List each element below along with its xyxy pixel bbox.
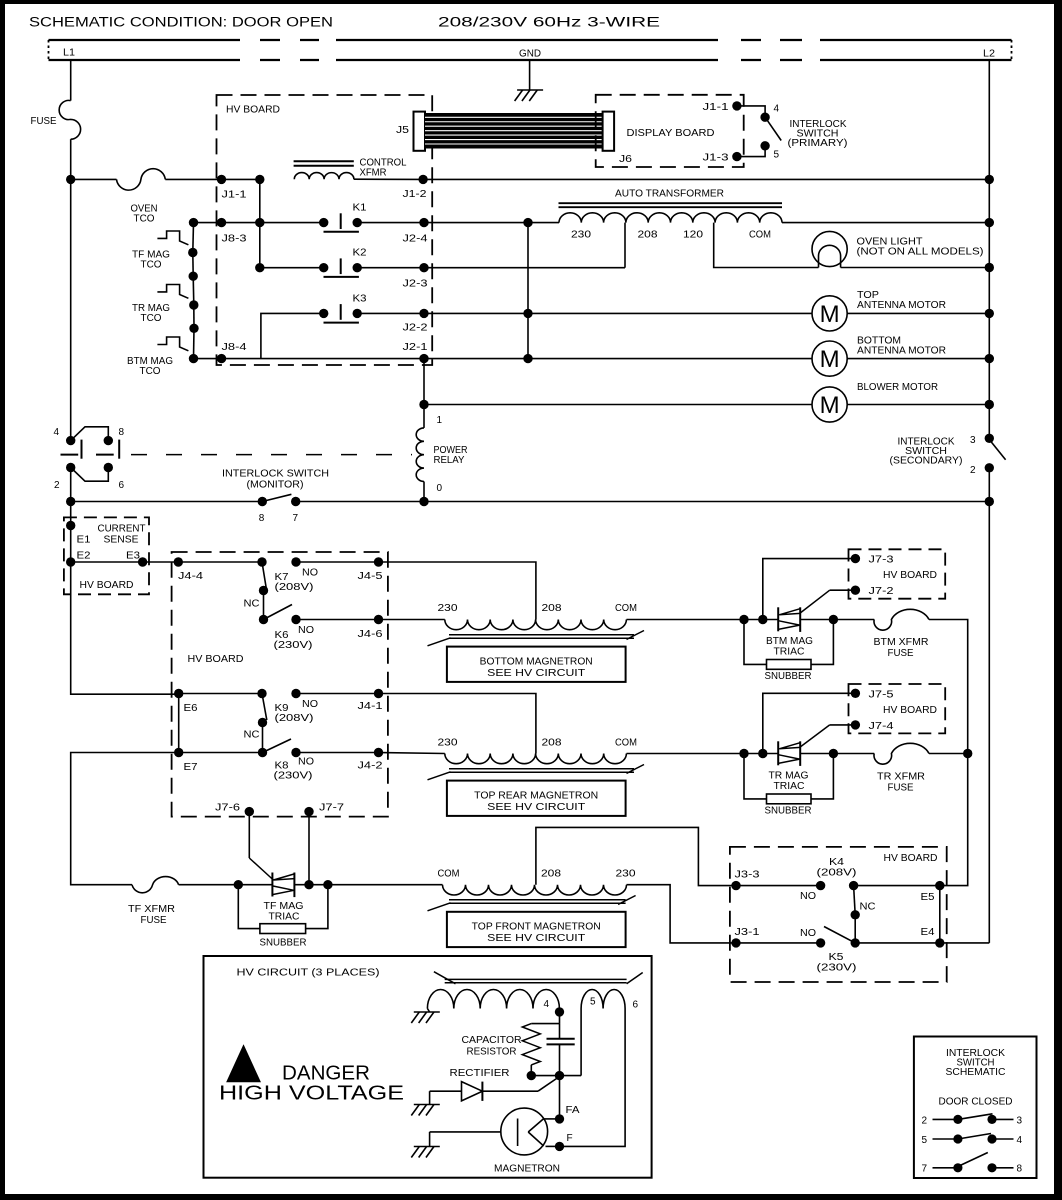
svg-text:208: 208 xyxy=(638,230,659,241)
wire COM end to rail xyxy=(782,222,989,224)
ground magnetron xyxy=(430,1131,501,1133)
fuse BTM XFMR FUSE xyxy=(874,609,929,630)
svg-text:AUTO TRANSFORMER: AUTO TRANSFORMER xyxy=(615,189,724,200)
filament winding pins 5-6 xyxy=(581,990,625,1009)
pin J7-3 xyxy=(851,554,860,563)
svg-text:BTM MAG: BTM MAG xyxy=(766,636,813,647)
svg-text:8: 8 xyxy=(1017,1164,1023,1175)
svg-text:HV BOARD: HV BOARD xyxy=(884,853,938,864)
svg-text:J4-6: J4-6 xyxy=(358,629,384,640)
HV BOARD box (middle) xyxy=(172,552,388,817)
snubber TF xyxy=(238,885,260,929)
pin J7-4 xyxy=(851,720,860,729)
svg-text:K1: K1 xyxy=(353,203,367,214)
pin E3 xyxy=(138,557,147,566)
svg-text:E2: E2 xyxy=(77,551,91,562)
svg-text:208: 208 xyxy=(541,869,562,880)
svg-text:J3-3: J3-3 xyxy=(735,870,761,881)
svg-text:BOTTOM MAGNETRON: BOTTOM MAGNETRON xyxy=(480,657,593,668)
svg-text:J7-2: J7-2 xyxy=(869,586,895,597)
svg-text:MAGNETRON: MAGNETRON xyxy=(494,1164,560,1175)
relay switch K8 (230V) xyxy=(263,739,292,753)
pin J4-6 xyxy=(374,615,383,624)
HV BOARD box J7-3/J7-2 xyxy=(849,549,946,598)
svg-text:DOOR CLOSED: DOOR CLOSED xyxy=(939,1097,1013,1108)
svg-text:2: 2 xyxy=(970,465,976,476)
ground HV primary xyxy=(427,1009,429,1013)
wire TR COM to triac xyxy=(627,753,779,755)
svg-text:CAPACITOR: CAPACITOR xyxy=(462,1035,522,1046)
wire motor feed vertical xyxy=(527,223,529,359)
wire TF 230 end to J3-1 xyxy=(627,885,737,943)
svg-text:J1-1: J1-1 xyxy=(222,190,248,201)
wire TF 208 tap to J3-3 xyxy=(536,827,736,885)
svg-text:NO: NO xyxy=(298,625,314,636)
right rail L2 drop xyxy=(988,60,990,438)
svg-text:FUSE: FUSE xyxy=(31,115,57,127)
svg-text:ANTENNA MOTOR: ANTENNA MOTOR xyxy=(857,346,946,357)
svg-text:L1: L1 xyxy=(63,48,75,59)
pin E1 xyxy=(66,521,75,530)
svg-text:TR XFMR: TR XFMR xyxy=(877,772,925,783)
fuse TR XFMR FUSE xyxy=(874,743,929,764)
svg-text:RESISTOR: RESISTOR xyxy=(467,1047,517,1058)
thermal cutout TR MAG TCO xyxy=(189,272,198,281)
pin J3-1 xyxy=(731,938,740,947)
svg-text:GND: GND xyxy=(519,49,541,60)
pin J1-1 display xyxy=(732,101,741,110)
pin 5 xyxy=(760,141,769,150)
svg-text:J7-6: J7-6 xyxy=(215,803,241,814)
svg-text:XFMR: XFMR xyxy=(360,168,387,179)
wire J1-1 to interlock pin 4 xyxy=(737,106,765,117)
pin F xyxy=(546,1145,560,1147)
svg-text:7: 7 xyxy=(922,1164,928,1175)
INTERLOCK SWITCH SCHEMATIC box xyxy=(914,1037,1037,1179)
ground symbol at GND xyxy=(529,60,531,90)
tap 208 wire xyxy=(624,223,626,268)
tap 120 wire xyxy=(714,223,819,268)
svg-text:(MONITOR): (MONITOR) xyxy=(247,480,304,491)
svg-text:HV BOARD: HV BOARD xyxy=(883,570,937,581)
svg-text:M: M xyxy=(820,346,840,373)
wire J2-3 to 208 tap xyxy=(424,267,625,269)
transformer HV XFMR core xyxy=(445,978,627,980)
svg-text:SCHEMATIC: SCHEMATIC xyxy=(946,1067,1006,1078)
relay switch K4 (208V) xyxy=(736,885,821,887)
svg-text:4: 4 xyxy=(1017,1135,1023,1146)
svg-text:6: 6 xyxy=(633,1000,639,1011)
pin FA xyxy=(545,1118,560,1120)
fuse TF XFMR FUSE xyxy=(132,877,179,893)
relay switch K9 (208V) xyxy=(179,693,262,695)
svg-text:CURRENT: CURRENT xyxy=(98,524,146,535)
fuse FUSE xyxy=(59,100,80,139)
svg-text:NO: NO xyxy=(302,699,318,710)
svg-text:J2-4: J2-4 xyxy=(403,234,429,245)
pin J7-7 xyxy=(304,807,313,816)
svg-text:DANGER: DANGER xyxy=(282,1063,370,1085)
svg-text:SEE HV CIRCUIT: SEE HV CIRCUIT xyxy=(487,668,585,679)
pin J4-5 xyxy=(374,557,383,566)
svg-text:L2: L2 xyxy=(983,49,995,60)
svg-text:M: M xyxy=(820,392,840,419)
switch INTERLOCK SWITCH (MONITOR) xyxy=(66,436,75,445)
thermal cutout BTM MAG TCO xyxy=(189,324,198,333)
svg-text:COM: COM xyxy=(438,869,460,880)
svg-text:HV BOARD: HV BOARD xyxy=(188,654,244,665)
svg-text:TCO: TCO xyxy=(141,313,162,324)
svg-text:J1-2: J1-2 xyxy=(403,189,428,200)
svg-text:230: 230 xyxy=(616,869,637,880)
wire J7-4 to triac gate xyxy=(830,724,856,726)
wire BTM COM to triac xyxy=(627,619,779,621)
svg-text:ANTENNA MOTOR: ANTENNA MOTOR xyxy=(857,300,946,311)
svg-text:TR MAG: TR MAG xyxy=(769,771,809,782)
svg-text:(208V): (208V) xyxy=(275,582,314,593)
svg-text:FUSE: FUSE xyxy=(888,648,914,659)
svg-text:SENSE: SENSE xyxy=(104,535,139,546)
svg-text:E7: E7 xyxy=(184,762,198,773)
contact NC K7 xyxy=(259,586,268,595)
svg-text:J7-3: J7-3 xyxy=(869,555,895,566)
svg-text:(230V): (230V) xyxy=(817,963,857,974)
svg-text:230: 230 xyxy=(438,603,459,614)
switch blade interlock primary (open) xyxy=(765,117,781,140)
svg-text:(230V): (230V) xyxy=(274,771,313,782)
wire E4 to right rail xyxy=(940,942,990,944)
svg-text:J4-4: J4-4 xyxy=(178,571,204,582)
thermal cutout TF MAG TCO xyxy=(189,218,198,227)
wire E2 to J4-4 xyxy=(71,561,179,563)
wire J2-1 down to power relay xyxy=(423,359,425,428)
svg-text:(NOT ON ALL MODELS): (NOT ON ALL MODELS) xyxy=(857,247,984,258)
node cap/res junction xyxy=(527,1071,536,1080)
pin J1-2 xyxy=(418,175,427,184)
wire fuse out down right side xyxy=(929,620,968,886)
svg-text:TF XFMR: TF XFMR xyxy=(128,904,175,915)
svg-text:J4-1: J4-1 xyxy=(358,701,384,712)
svg-text:J6: J6 xyxy=(619,154,633,165)
svg-text:TOP FRONT MAGNETRON: TOP FRONT MAGNETRON xyxy=(472,922,601,933)
right rail lower xyxy=(988,468,990,943)
svg-text:J1-3: J1-3 xyxy=(703,153,730,164)
capacitor (HV) xyxy=(559,1024,561,1039)
svg-text:J3-1: J3-1 xyxy=(735,927,761,938)
svg-text:SCHEMATIC CONDITION: DOOR OPEN: SCHEMATIC CONDITION: DOOR OPEN xyxy=(29,15,333,30)
wire J4-2 to TR transformer xyxy=(379,753,445,754)
svg-text:6: 6 xyxy=(119,480,125,491)
ribbon cable J5 to J6 xyxy=(425,113,603,149)
connector J5 xyxy=(414,112,426,151)
HV BOARD box J7-5/J7-4 xyxy=(849,684,946,733)
relay switch K7 (208V) xyxy=(257,557,266,566)
wire J7-6 to TF triac gate xyxy=(248,812,250,858)
wire fuse to junction xyxy=(70,139,72,179)
svg-text:J2-2: J2-2 xyxy=(403,323,429,334)
page border frame xyxy=(0,0,1062,4)
triac BTM MAG TRIAC xyxy=(739,615,748,624)
resistor (HV bleed) xyxy=(531,1023,559,1025)
svg-text:0: 0 xyxy=(437,483,443,494)
DISPLAY BOARD box xyxy=(596,95,744,167)
svg-text:NC: NC xyxy=(860,902,876,913)
svg-text:J5: J5 xyxy=(396,125,410,136)
top supply bus L1-GND-L2 xyxy=(49,39,241,41)
svg-text:HV BOARD: HV BOARD xyxy=(80,580,134,591)
wire TF triac to transformer xyxy=(328,884,443,886)
pin J7-2 xyxy=(851,586,860,595)
wire K-relay feed vertical xyxy=(259,179,261,267)
wire pin 5 to J1-3 xyxy=(737,146,765,157)
svg-text:RECTIFIER: RECTIFIER xyxy=(450,1068,510,1079)
wire monitor bottom row xyxy=(66,497,75,506)
box BOTTOM MAGNETRON xyxy=(447,647,626,682)
svg-text:TCO: TCO xyxy=(140,366,161,377)
relay contact K3 xyxy=(261,313,324,358)
svg-text:FA: FA xyxy=(566,1105,580,1116)
relay switch K5 (230V) xyxy=(736,942,821,944)
wire J2-4 to autotransformer xyxy=(424,222,559,224)
svg-text:M: M xyxy=(820,301,840,328)
relay switch K6 (230V) xyxy=(259,615,268,624)
svg-text:2: 2 xyxy=(922,1116,928,1127)
wire J7-5 to triac row xyxy=(763,693,856,753)
svg-text:COM: COM xyxy=(749,230,771,241)
wire J7-3 to triac row xyxy=(763,559,856,620)
svg-text:K3: K3 xyxy=(353,294,367,305)
svg-text:J1-1: J1-1 xyxy=(703,102,730,113)
svg-text:E6: E6 xyxy=(184,703,198,714)
snubber BTM xyxy=(744,620,767,665)
svg-text:230: 230 xyxy=(571,230,592,241)
HV CIRCUIT box xyxy=(204,956,652,1178)
wire bottom row to current sense E1/E2 xyxy=(70,502,72,563)
svg-text:SEE HV CIRCUIT: SEE HV CIRCUIT xyxy=(487,802,585,813)
svg-text:8: 8 xyxy=(119,427,125,438)
svg-text:TOP REAR MAGNETRON: TOP REAR MAGNETRON xyxy=(474,791,598,802)
magnetron MAGNETRON xyxy=(501,1108,548,1155)
svg-text:8: 8 xyxy=(259,513,265,524)
svg-text:TRIAC: TRIAC xyxy=(774,781,805,792)
pin E2 xyxy=(66,557,75,566)
triac TF MAG TRIAC xyxy=(234,880,243,889)
svg-text:NC: NC xyxy=(244,599,260,610)
svg-text:230: 230 xyxy=(438,738,459,749)
svg-text:E3: E3 xyxy=(126,551,140,562)
svg-text:TRIAC: TRIAC xyxy=(269,912,300,923)
CURRENT SENSE box xyxy=(64,517,149,594)
svg-text:(230V): (230V) xyxy=(274,640,313,651)
svg-text:SEE HV CIRCUIT: SEE HV CIRCUIT xyxy=(487,933,585,944)
pin E7 xyxy=(174,748,183,757)
svg-text:J7-7: J7-7 xyxy=(319,803,345,814)
wire junction to FA xyxy=(559,1076,561,1119)
svg-text:COM: COM xyxy=(615,603,637,614)
transformer BOTTOM MAG XFMR primary xyxy=(445,620,627,630)
wire left rail: junction down to monitor switch xyxy=(70,179,72,440)
node junction L1/fuse row xyxy=(66,175,75,184)
wire J2-1 row xyxy=(194,358,425,360)
wire J4-6 to BTM transformer xyxy=(379,619,445,621)
wire J4-1 to TR 208 tap xyxy=(379,694,536,754)
pin J2-1 xyxy=(419,354,428,363)
motor BLOWER MOTOR xyxy=(424,404,812,406)
svg-text:K4: K4 xyxy=(829,857,845,868)
motor BOTTOM ANTENNA MOTOR xyxy=(424,358,812,360)
svg-text:SNUBBER: SNUBBER xyxy=(260,938,307,949)
svg-text:208: 208 xyxy=(542,603,563,614)
motor TOP ANTENNA MOTOR xyxy=(528,312,812,314)
wire J4-5 to BTM 208 tap xyxy=(379,562,536,620)
svg-text:J7-4: J7-4 xyxy=(869,721,895,732)
pin J1-3 display xyxy=(732,152,741,161)
box TOP REAR MAGNETRON xyxy=(447,781,626,816)
transformer CONTROL XFMR primary xyxy=(294,160,354,162)
wire E2 down and over to E6 xyxy=(71,562,179,694)
svg-text:FUSE: FUSE xyxy=(141,915,167,926)
svg-text:DISPLAY BOARD: DISPLAY BOARD xyxy=(627,128,715,139)
pin J7-5 xyxy=(851,689,860,698)
HV primary coil xyxy=(427,990,559,1009)
svg-text:K5: K5 xyxy=(829,952,845,963)
wire L1 drop to fuse xyxy=(70,60,72,101)
relay contact K1 xyxy=(255,218,264,227)
wire E7 over and down to TF fuse row xyxy=(71,753,179,885)
svg-text:BLOWER MOTOR: BLOWER MOTOR xyxy=(857,382,938,393)
wire J7-7 to TF triac out xyxy=(308,812,310,885)
svg-text:TRIAC: TRIAC xyxy=(774,647,805,658)
contact NC K4 xyxy=(851,910,860,919)
svg-text:208/230V 60Hz 3-WIRE: 208/230V 60Hz 3-WIRE xyxy=(438,15,660,30)
svg-text:5: 5 xyxy=(774,150,780,161)
svg-text:J4-5: J4-5 xyxy=(358,571,384,582)
svg-text:7: 7 xyxy=(293,513,299,524)
svg-text:NO: NO xyxy=(298,757,314,768)
svg-text:1: 1 xyxy=(437,415,443,426)
pin E4 xyxy=(935,938,944,947)
triac TR MAG TRIAC xyxy=(739,749,748,758)
pin J2-4 xyxy=(419,218,428,227)
svg-text:E4: E4 xyxy=(921,927,935,938)
wire monitor to bottom row xyxy=(70,468,72,502)
pin J7-6 xyxy=(245,807,254,816)
switch monitor contacts 8-7 xyxy=(258,497,267,506)
wire row L1 to OVEN TCO xyxy=(71,178,117,180)
svg-text:(SECONDARY): (SECONDARY) xyxy=(890,456,963,467)
pin E5 xyxy=(935,881,944,890)
svg-text:(208V): (208V) xyxy=(817,868,857,879)
transformer TOP REAR MAG XFMR primary xyxy=(445,754,627,764)
svg-text:E5: E5 xyxy=(921,892,935,903)
svg-text:120: 120 xyxy=(683,230,704,241)
pin J4-4 xyxy=(174,557,183,566)
svg-text:TCO: TCO xyxy=(141,260,162,271)
pin J2-3 xyxy=(419,263,428,272)
svg-text:SNUBBER: SNUBBER xyxy=(765,671,812,682)
thermal cutout OVEN TCO xyxy=(117,169,166,190)
wire J7-2 to triac gate xyxy=(830,589,856,591)
switch INTERLOCK SWITCH (SECONDARY) xyxy=(985,434,994,443)
wire J1-2 to right rail xyxy=(423,178,989,180)
node branch K relays xyxy=(255,175,264,184)
svg-text:E1: E1 xyxy=(77,535,91,546)
node J2-4 branch xyxy=(523,218,532,227)
pin J4-1 xyxy=(374,689,383,698)
svg-text:5: 5 xyxy=(590,997,596,1008)
svg-text:NC: NC xyxy=(244,730,260,741)
svg-text:J2-3: J2-3 xyxy=(403,279,429,290)
svg-text:J8-3: J8-3 xyxy=(222,234,248,245)
svg-text:FUSE: FUSE xyxy=(888,783,914,794)
svg-text:COM: COM xyxy=(615,738,637,749)
wire TR fuse out xyxy=(929,753,968,755)
connector J6 xyxy=(603,112,615,151)
svg-text:HV CIRCUIT (3 PLACES): HV CIRCUIT (3 PLACES) xyxy=(237,968,380,979)
svg-text:HV BOARD: HV BOARD xyxy=(226,105,280,116)
HV BOARD box (top) xyxy=(217,95,433,365)
lamp OVEN LIGHT xyxy=(812,231,847,266)
svg-text:INTERLOCK SWITCH: INTERLOCK SWITCH xyxy=(222,469,329,480)
relay contact K2 xyxy=(255,263,264,272)
mechanical link dashed line xyxy=(131,454,412,456)
svg-text:F: F xyxy=(567,1133,573,1144)
svg-text:J7-5: J7-5 xyxy=(869,690,895,701)
pin J4-2 xyxy=(374,748,383,757)
svg-text:4: 4 xyxy=(544,999,550,1010)
pin J1-1 HV board xyxy=(217,175,226,184)
svg-text:J2-1: J2-1 xyxy=(403,342,429,353)
svg-text:TF MAG: TF MAG xyxy=(264,901,304,912)
svg-text:HIGH VOLTAGE: HIGH VOLTAGE xyxy=(219,1083,404,1105)
wire OVEN TCO to J1-1 xyxy=(165,178,259,180)
svg-text:RELAY: RELAY xyxy=(434,455,465,466)
svg-text:(208V): (208V) xyxy=(275,713,314,724)
pin 4 xyxy=(760,113,769,122)
svg-text:3: 3 xyxy=(970,435,976,446)
box TOP FRONT MAGNETRON xyxy=(447,912,626,947)
svg-text:NO: NO xyxy=(800,928,816,939)
snubber TR xyxy=(744,754,767,799)
pin J3-3 xyxy=(731,881,740,890)
pin J8-3 xyxy=(217,218,226,227)
svg-text:2: 2 xyxy=(54,480,60,491)
contact NC K9 xyxy=(258,718,267,727)
svg-text:SNUBBER: SNUBBER xyxy=(765,806,812,817)
svg-text:K2: K2 xyxy=(353,248,367,259)
svg-text:NO: NO xyxy=(302,568,318,579)
svg-text:208: 208 xyxy=(542,738,563,749)
HV BOARD box K4/K5 xyxy=(730,847,947,982)
svg-text:5: 5 xyxy=(922,1135,928,1146)
svg-text:J4-2: J4-2 xyxy=(358,761,384,772)
svg-text:4: 4 xyxy=(54,427,60,438)
svg-text:J8-4: J8-4 xyxy=(222,342,248,353)
pin J2-2 xyxy=(419,309,428,318)
pin J8-4 xyxy=(217,354,226,363)
svg-text:3: 3 xyxy=(1017,1116,1023,1127)
svg-text:NO: NO xyxy=(800,891,816,902)
wire E7 row to K8 xyxy=(179,752,263,754)
svg-text:(PRIMARY): (PRIMARY) xyxy=(788,138,848,149)
danger triangle symbol xyxy=(227,1046,259,1082)
svg-text:4: 4 xyxy=(774,104,780,115)
svg-text:HV BOARD: HV BOARD xyxy=(883,705,937,716)
svg-text:BTM XFMR: BTM XFMR xyxy=(874,637,929,648)
pin E6 xyxy=(174,689,183,698)
transformer TOP FRONT MAG XFMR primary xyxy=(443,885,627,895)
svg-text:TCO: TCO xyxy=(134,213,155,225)
